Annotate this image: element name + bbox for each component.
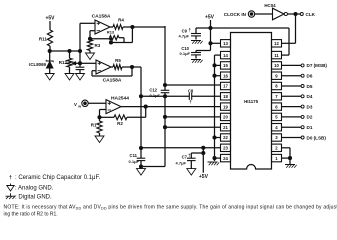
svg-text:D5: D5	[307, 84, 313, 89]
svg-text:3: 3	[275, 135, 278, 140]
svg-text:R12: R12	[59, 60, 68, 65]
svg-text:0.1μF: 0.1μF	[129, 159, 140, 164]
svg-text:: Analog GND.: : Analog GND.	[15, 186, 54, 192]
svg-text:D6: D6	[307, 74, 313, 79]
svg-text:C7: C7	[182, 155, 188, 160]
svg-text:7: 7	[275, 94, 278, 99]
svg-text:R4: R4	[118, 18, 124, 23]
svg-text:†: †	[189, 100, 192, 105]
svg-text:R1: R1	[91, 123, 97, 128]
svg-text:CA158A: CA158A	[103, 78, 122, 84]
svg-text:16: 16	[223, 73, 228, 78]
svg-text:R13: R13	[107, 30, 115, 35]
svg-text:: Ceramic Chip Capacitor 0.1μF: : Ceramic Chip Capacitor 0.1μF.	[15, 175, 100, 181]
svg-text:4: 4	[275, 125, 278, 130]
svg-text:13: 13	[223, 41, 228, 46]
svg-text:C11: C11	[130, 153, 138, 158]
svg-text:ICL8069: ICL8069	[29, 62, 46, 67]
svg-text:R11: R11	[39, 37, 48, 42]
svg-text:6: 6	[275, 104, 278, 109]
svg-text:12: 12	[274, 41, 279, 46]
svg-text:1: 1	[275, 156, 278, 161]
svg-text:11: 11	[274, 53, 279, 58]
svg-text:R5: R5	[115, 58, 121, 63]
svg-text:IN: IN	[78, 104, 81, 108]
svg-text:R3: R3	[95, 43, 101, 48]
svg-text:5: 5	[275, 115, 278, 120]
svg-text:D2: D2	[307, 115, 313, 120]
svg-text:HI1175: HI1175	[244, 99, 258, 104]
svg-text:D3: D3	[307, 104, 313, 109]
svg-text:24: 24	[223, 156, 228, 161]
svg-text:V: V	[74, 102, 77, 107]
svg-text:C12: C12	[149, 88, 157, 93]
svg-text:4.7μF: 4.7μF	[179, 34, 190, 39]
svg-text:CLOCK IN: CLOCK IN	[224, 12, 247, 17]
svg-text:4.7μF: 4.7μF	[176, 161, 187, 166]
svg-text:19: 19	[223, 104, 228, 109]
svg-text:0.1μF: 0.1μF	[180, 51, 191, 56]
svg-text:21: 21	[223, 125, 228, 130]
svg-text:20: 20	[223, 115, 228, 120]
svg-text:CA158A: CA158A	[92, 14, 111, 20]
svg-text:ing the ratio of R2 to R1.: ing the ratio of R2 to R1.	[4, 212, 58, 218]
svg-text:+5V: +5V	[205, 15, 215, 21]
svg-text:15: 15	[223, 63, 228, 68]
svg-text:18: 18	[223, 94, 228, 99]
svg-text:10: 10	[274, 63, 279, 68]
svg-text:: Digital GND.: : Digital GND.	[15, 195, 52, 201]
svg-text:†: †	[9, 175, 12, 181]
svg-text:9: 9	[275, 73, 278, 78]
svg-text:R2: R2	[117, 121, 123, 126]
svg-text:D1: D1	[307, 125, 313, 130]
svg-text:HC04: HC04	[264, 3, 276, 8]
svg-text:D4: D4	[307, 94, 313, 99]
svg-text:CLK: CLK	[306, 12, 316, 17]
svg-text:+5V: +5V	[45, 16, 55, 22]
svg-text:D0 (LSB): D0 (LSB)	[307, 135, 327, 140]
svg-text:HA2544: HA2544	[111, 96, 129, 102]
svg-text:23: 23	[223, 146, 228, 151]
svg-text:D7 (MSB): D7 (MSB)	[307, 63, 328, 68]
svg-text:†: †	[188, 153, 191, 158]
svg-text:14: 14	[223, 53, 228, 58]
svg-text:22: 22	[223, 135, 228, 140]
svg-text:NOTE: It is necessary that AV: NOTE: It is necessary that AVDD and DVDD…	[4, 205, 337, 211]
svg-text:17: 17	[223, 84, 228, 89]
svg-text:+5V: +5V	[199, 174, 209, 180]
svg-text:8: 8	[275, 84, 278, 89]
svg-text:†: †	[189, 28, 192, 33]
svg-text:2: 2	[275, 146, 278, 151]
svg-text:C8: C8	[188, 89, 194, 94]
svg-text:0.1μF: 0.1μF	[150, 93, 161, 98]
